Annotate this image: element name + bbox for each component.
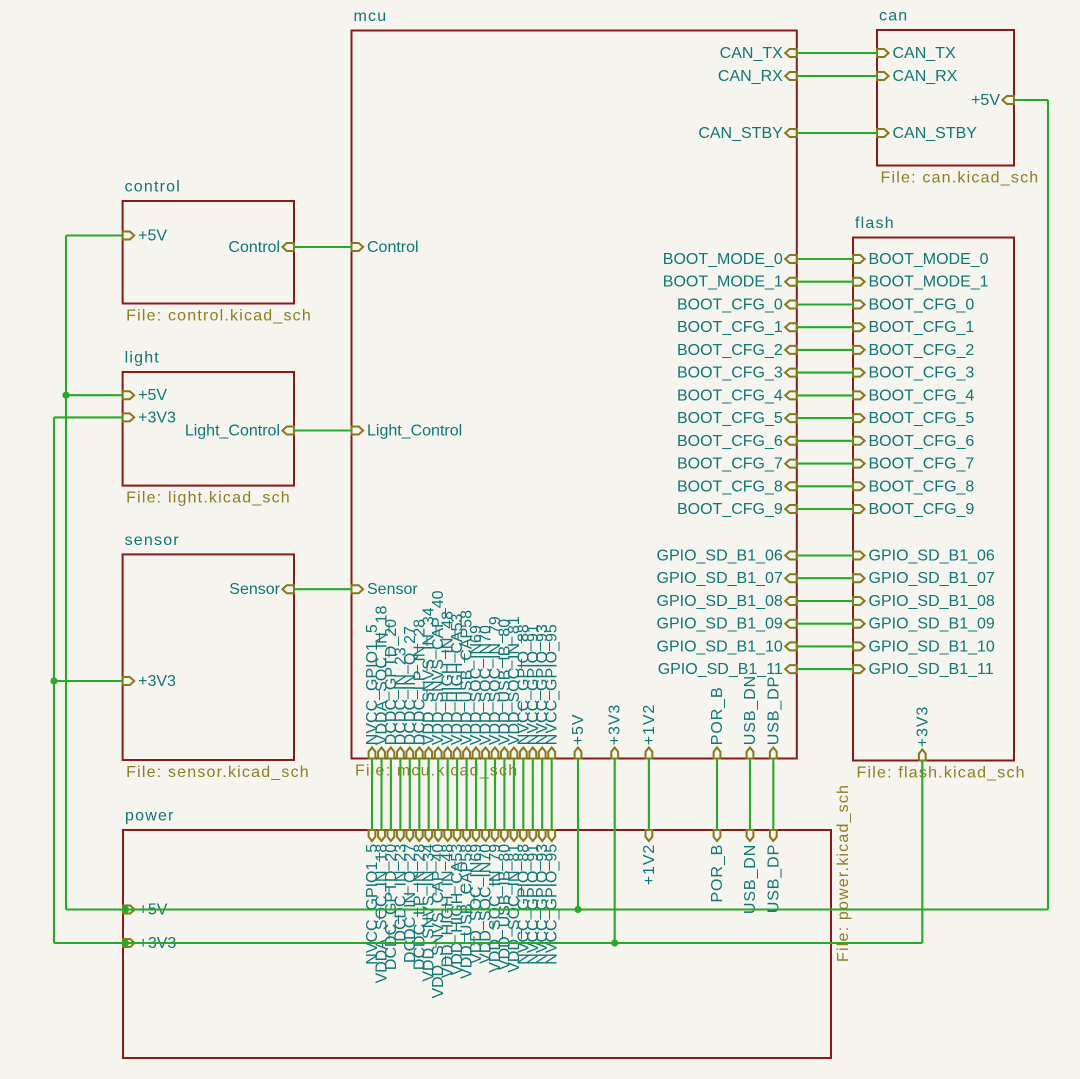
svg-text:File: mcu.kicad_sch: File: mcu.kicad_sch [355, 763, 518, 780]
sheet pin CAN_STBY (can left) [877, 129, 889, 137]
sheet pin +3V3 (flash bottom) [919, 750, 926, 761]
svg-text:Light_Control: Light_Control [367, 423, 462, 440]
svg-text:CAN_TX: CAN_TX [893, 45, 956, 62]
sheet pin BOOT_CFG_0 (flash left) [853, 301, 865, 309]
wire VDD_SNVS_IN_34 [428, 759, 430, 831]
sheet pin +5V (power left) [123, 906, 135, 914]
sheet pin GPIO_SD_B1_07 (mcu right) [785, 574, 797, 582]
svg-text:BOOT_CFG_4: BOOT_CFG_4 [869, 387, 975, 404]
sheet pin Control (mcu left) [352, 243, 364, 251]
sheet pin +3V3 (sensor left) [123, 677, 135, 685]
wire GPIO_SD_B1_06 [797, 554, 853, 556]
svg-text:BOOT_CFG_2: BOOT_CFG_2 [869, 342, 975, 359]
svg-text:BOOT_CFG_2: BOOT_CFG_2 [677, 342, 783, 359]
sheet pin VDD_HIGH_IN_48 (power top) [444, 830, 451, 841]
sheet pin +5V (mcu bottom) [575, 748, 582, 759]
svg-text:BOOT_CFG_5: BOOT_CFG_5 [869, 410, 975, 427]
svg-text:GPIO_SD_B1_09: GPIO_SD_B1_09 [869, 616, 995, 633]
svg-text:BOOT_MODE_0: BOOT_MODE_0 [663, 251, 783, 268]
sheet pin VDD_SOC_IN69 (mcu bottom) [473, 748, 480, 759]
sheet pin +3V3 (light left) [123, 413, 135, 421]
wire Control [294, 246, 352, 248]
sheet pin +3V3 (mcu bottom) [611, 748, 618, 759]
sheet pin VDD_SNVS_IN_34 (power top) [425, 830, 432, 841]
sheet pin DCDC_IN_Q_27 (mcu bottom) [406, 748, 413, 759]
svg-text:BOOT_CFG_9: BOOT_CFG_9 [677, 501, 783, 518]
sheet pin BOOT_CFG_3 (flash left) [853, 369, 865, 377]
svg-text:BOOT_CFG_1: BOOT_CFG_1 [677, 319, 783, 336]
wire BOOT_CFG_7 [797, 463, 853, 465]
svg-text:NVCC_GPIO_95: NVCC_GPIO_95 [544, 624, 561, 745]
sheet pin VDD_USB_IB_80 (power top) [501, 830, 508, 841]
sheet pin VDDA_SOC_IN_18 (mcu bottom) [378, 748, 385, 759]
sheet light: outline [123, 372, 294, 486]
svg-text:+5V: +5V [570, 714, 587, 746]
sheet pin BOOT_CFG_1 (mcu right) [785, 323, 797, 331]
wire NVCC_GPIO_88 [522, 759, 524, 831]
svg-text:POR_B: POR_B [709, 844, 726, 903]
sheet flash: outline [853, 238, 1014, 761]
svg-text:BOOT_CFG_6: BOOT_CFG_6 [677, 433, 783, 450]
sheet pin VDDA_SOC_IN_18 (power top) [378, 830, 385, 841]
sheet pin +5V (control left) [123, 232, 135, 240]
sheet control: outline [123, 201, 294, 304]
svg-text:CAN_RX: CAN_RX [718, 68, 783, 85]
wire GPIO_SD_B1_11 [797, 668, 853, 670]
svg-text:BOOT_MODE_1: BOOT_MODE_1 [869, 274, 989, 291]
sheet pin BOOT_MODE_1 (flash left) [853, 278, 865, 286]
wire DCDC_IN_23 [399, 759, 401, 831]
sheet pin NVCC_GPIO_93 (mcu bottom) [539, 748, 546, 759]
sheet pin BOOT_CFG_4 (flash left) [853, 391, 865, 399]
svg-text:BOOT_CFG_5: BOOT_CFG_5 [677, 410, 783, 427]
sheet pin GPIO_SD_B1_07 (flash left) [853, 574, 865, 582]
wire +1V2 [648, 759, 650, 831]
svg-text:BOOT_CFG_7: BOOT_CFG_7 [869, 456, 975, 473]
sheet pin GPIO_SD_B1_11 (flash left) [853, 665, 865, 673]
sheet pin BOOT_CFG_8 (flash left) [853, 482, 865, 490]
svg-text:GPIO_SD_B1_06: GPIO_SD_B1_06 [657, 548, 783, 565]
svg-text:USB_DP: USB_DP [765, 676, 782, 745]
sheet pin VDD_SOC_IN_79 (mcu bottom) [492, 748, 499, 759]
svg-text:+3V3: +3V3 [914, 706, 931, 747]
sheet pin BOOT_CFG_6 (flash left) [853, 437, 865, 445]
junction +3V3 power pin [122, 939, 129, 946]
sheet pin CAN_RX (mcu right) [785, 72, 797, 80]
sheet pin +1V2 (mcu bottom) [646, 748, 653, 759]
svg-text:CAN_STBY: CAN_STBY [698, 125, 783, 142]
svg-text:CAN_STBY: CAN_STBY [893, 125, 978, 142]
sheet pin VDD_SOC_IN70 (mcu bottom) [482, 748, 489, 759]
sheet pin BOOT_CFG_5 (flash left) [853, 414, 865, 422]
svg-text:+5V: +5V [138, 228, 167, 245]
svg-text:Light_Control: Light_Control [185, 423, 280, 440]
wire +5V light [66, 394, 123, 396]
sheet sensor: outline [123, 554, 294, 760]
svg-text:light: light [125, 350, 160, 367]
svg-text:BOOT_CFG_4: BOOT_CFG_4 [677, 387, 783, 404]
wire NVCC_GPIO1_5 [371, 759, 373, 831]
sheet pin VDD_SOC_IN_81 (mcu bottom) [511, 748, 518, 759]
wire NVCC_GPIO_95 [551, 759, 553, 831]
sheet pin GPIO_SD_B1_08 (mcu right) [785, 597, 797, 605]
sheet pin DCDC_GPTD_20 (power top) [388, 830, 395, 841]
sheet pin BOOT_CFG_8 (mcu right) [785, 482, 797, 490]
svg-text:File: power.kicad_sch: File: power.kicad_sch [835, 784, 852, 962]
svg-text:GPIO_SD_B1_10: GPIO_SD_B1_10 [869, 638, 995, 655]
sheet pin NVCC_GPIO1_5 (power top) [369, 830, 376, 841]
wire BOOT_CFG_2 [797, 349, 853, 351]
svg-text:+3V3: +3V3 [138, 409, 176, 426]
svg-text:flash: flash [855, 215, 895, 232]
svg-text:control: control [125, 179, 181, 196]
wire +5V mcu drop [577, 759, 579, 910]
sheet pin GPIO_SD_B1_10 (mcu right) [785, 642, 797, 650]
sheet pin BOOT_CFG_3 (mcu right) [785, 369, 797, 377]
sheet pin VDD_SNVS_CAP_40 (power top) [435, 830, 442, 841]
sheet pin +5V (can right) [1002, 96, 1014, 104]
sheet pin VDD_USB_CAP58 (power top) [463, 830, 470, 841]
sheet pin Sensor (sensor right) [282, 585, 294, 593]
svg-text:GPIO_SD_B1_11: GPIO_SD_B1_11 [869, 661, 994, 678]
wire VDDA_SOC_IN_18 [380, 759, 382, 831]
wire +3V3 bus [54, 942, 922, 944]
svg-text:Sensor: Sensor [367, 581, 418, 598]
wire BOOT_CFG_1 [797, 326, 853, 328]
sheet pin CAN_STBY (mcu right) [785, 129, 797, 137]
wire +5V can [1014, 99, 1048, 101]
svg-text:File: light.kicad_sch: File: light.kicad_sch [126, 490, 291, 507]
sheet mcu: outline [352, 31, 797, 759]
sheet pin DCDC_GPTD_20 (mcu bottom) [388, 748, 395, 759]
svg-text:GPIO_SD_B1_07: GPIO_SD_B1_07 [657, 570, 783, 587]
sheet pin GPIO_SD_B1_11 (mcu right) [785, 665, 797, 673]
wire DCDC_GPTD_20 [390, 759, 392, 831]
sheet pin NVCC_GPIO_93 (power top) [539, 830, 546, 841]
sheet pin Sensor (mcu left) [352, 585, 364, 593]
sheet pin BOOT_CFG_4 (mcu right) [785, 391, 797, 399]
svg-text:NVCC_GPIO_95: NVCC_GPIO_95 [544, 844, 561, 965]
wire CAN_RX [797, 75, 877, 77]
sheet pin BOOT_CFG_5 (mcu right) [785, 414, 797, 422]
wire GPIO_SD_B1_09 [797, 623, 853, 625]
wire +5V right vertical [1047, 100, 1049, 910]
sheet pin NVCC_GPIO_91 (mcu bottom) [529, 748, 536, 759]
sheet pin BOOT_MODE_1 (mcu right) [785, 278, 797, 286]
sheet pin VDD_USB_IB_80 (mcu bottom) [501, 748, 508, 759]
sheet pin BOOT_CFG_6 (mcu right) [785, 437, 797, 445]
sheet pin GPIO_SD_B1_10 (flash left) [853, 642, 865, 650]
sheet pin NVCC_GPIO_88 (mcu bottom) [520, 748, 527, 759]
svg-text:BOOT_CFG_3: BOOT_CFG_3 [677, 365, 783, 382]
wire +5V control [66, 234, 123, 236]
svg-text:Sensor: Sensor [229, 581, 280, 598]
sheet pin DCDC_IN_23 (power top) [397, 830, 404, 841]
sheet pin Light_Control (light right) [282, 427, 294, 435]
sheet pin GPIO_SD_B1_06 (flash left) [853, 552, 865, 560]
wire BOOT_MODE_1 [797, 281, 853, 283]
sheet can: outline [877, 30, 1014, 166]
svg-text:USB_DP: USB_DP [765, 844, 782, 913]
wire NVCC_GPIO_93 [541, 759, 543, 831]
svg-text:GPIO_SD_B1_07: GPIO_SD_B1_07 [869, 570, 995, 587]
sheet pin Light_Control (mcu left) [352, 427, 364, 435]
sheet pin BOOT_CFG_2 (mcu right) [785, 346, 797, 354]
junction +5V power pin [122, 906, 129, 913]
svg-text:GPIO_SD_B1_10: GPIO_SD_B1_10 [657, 638, 783, 655]
wire USB_DN [749, 759, 751, 831]
svg-text:BOOT_CFG_8: BOOT_CFG_8 [869, 478, 975, 495]
sheet pin NVCC_GPIO1_5 (mcu bottom) [369, 748, 376, 759]
wire +3V3 light [54, 416, 123, 418]
sheet pin CAN_TX (can left) [877, 49, 889, 57]
sheet pin VDD_USB_CAP58 (mcu bottom) [463, 748, 470, 759]
svg-text:File: can.kicad_sch: File: can.kicad_sch [881, 170, 1040, 187]
sheet pin BOOT_CFG_0 (mcu right) [785, 301, 797, 309]
svg-text:USB_DN: USB_DN [742, 844, 759, 914]
svg-text:power: power [125, 808, 175, 825]
wire BOOT_CFG_9 [797, 508, 853, 510]
wire BOOT_CFG_8 [797, 485, 853, 487]
sheet pin POR_B (mcu bottom) [714, 748, 721, 759]
sheet pin NVCC_GPIO_95 (mcu bottom) [548, 748, 555, 759]
svg-text:Control: Control [228, 239, 280, 256]
wire BOOT_CFG_4 [797, 394, 853, 396]
sheet pin BOOT_CFG_7 (mcu right) [785, 460, 797, 468]
wire VDD_SOC_IN_79 [494, 759, 496, 831]
sheet pin VDD_SOC_IN70 (power top) [482, 830, 489, 841]
svg-text:BOOT_CFG_0: BOOT_CFG_0 [869, 297, 975, 314]
svg-text:+1V2: +1V2 [641, 704, 658, 745]
sheet pin DCDC_IN_Q_27 (power top) [406, 830, 413, 841]
wire VDD_SOC_IN_81 [513, 759, 515, 831]
sheet pin GPIO_SD_B1_08 (flash left) [853, 597, 865, 605]
svg-text:CAN_RX: CAN_RX [893, 68, 958, 85]
sheet pin VDD_SNVS_IN_34 (mcu bottom) [425, 748, 432, 759]
svg-text:BOOT_CFG_0: BOOT_CFG_0 [677, 297, 783, 314]
sheet pin BOOT_CFG_9 (flash left) [853, 505, 865, 513]
wire USB_DP [772, 759, 774, 831]
sheet pin BOOT_CFG_2 (flash left) [853, 346, 865, 354]
svg-text:BOOT_MODE_0: BOOT_MODE_0 [869, 251, 989, 268]
svg-text:GPIO_SD_B1_08: GPIO_SD_B1_08 [657, 593, 783, 610]
svg-text:File: control.kicad_sch: File: control.kicad_sch [126, 308, 312, 325]
svg-text:POR_B: POR_B [709, 686, 726, 745]
wire +5V bus [66, 908, 1048, 910]
sheet pin VDD_SOC_IN69 (power top) [473, 830, 480, 841]
wire BOOT_CFG_5 [797, 417, 853, 419]
sheet pin USB_DN (power top) [747, 830, 754, 841]
wire VDD_SOC_IN69 [475, 759, 477, 831]
wire VDD_HIGH_CA53 [456, 759, 458, 831]
svg-text:sensor: sensor [125, 532, 180, 549]
sheet pin BOOT_CFG_9 (mcu right) [785, 505, 797, 513]
svg-text:mcu: mcu [354, 8, 388, 25]
sheet pin Control (control right) [282, 243, 294, 251]
sheet pin GPIO_SD_B1_09 (mcu right) [785, 620, 797, 628]
sheet pin USB_DN (mcu bottom) [747, 748, 754, 759]
junction +5V mcu tee [574, 906, 581, 913]
sheet pin BOOT_MODE_0 (flash left) [853, 255, 865, 263]
sheet pin DCDC_LP_IN_28 (mcu bottom) [416, 748, 423, 759]
sheet pin GPIO_SD_B1_09 (flash left) [853, 620, 865, 628]
sheet pin DCDC_LP_IN_28 (power top) [416, 830, 423, 841]
svg-text:GPIO_SD_B1_08: GPIO_SD_B1_08 [869, 593, 995, 610]
wire VDD_USB_CAP58 [466, 759, 468, 831]
sheet pin +3V3 (power left) [123, 939, 135, 947]
sheet pin NVCC_GPIO_95 (power top) [548, 830, 555, 841]
wire CAN_TX [797, 52, 877, 54]
wire BOOT_CFG_3 [797, 372, 853, 374]
svg-text:+5V: +5V [971, 92, 1000, 109]
wire VDD_SOC_IN70 [484, 759, 486, 831]
sheet pin VDD_SOC_IN_81 (power top) [511, 830, 518, 841]
svg-text:BOOT_CFG_9: BOOT_CFG_9 [869, 501, 975, 518]
wire +3V3 vertical left [53, 417, 55, 943]
sheet pin BOOT_CFG_7 (flash left) [853, 460, 865, 468]
junction +5V light tee [62, 392, 69, 399]
svg-text:GPIO_SD_B1_11: GPIO_SD_B1_11 [658, 661, 783, 678]
wire DCDC_IN_Q_27 [409, 759, 411, 831]
wire Light_Control [294, 429, 352, 431]
svg-text:File: sensor.kicad_sch: File: sensor.kicad_sch [126, 764, 310, 781]
wire BOOT_CFG_6 [797, 440, 853, 442]
svg-text:+1V2: +1V2 [641, 844, 658, 885]
svg-text:BOOT_CFG_8: BOOT_CFG_8 [677, 478, 783, 495]
wire VDD_HIGH_IN_48 [447, 759, 449, 831]
svg-text:can: can [879, 8, 908, 25]
svg-text:BOOT_CFG_7: BOOT_CFG_7 [677, 456, 783, 473]
sheet pin USB_DP (power top) [770, 830, 777, 841]
sheet pin CAN_RX (can left) [877, 72, 889, 80]
wire GPIO_SD_B1_07 [797, 577, 853, 579]
wire VDD_USB_IB_80 [503, 759, 505, 831]
sheet pin USB_DP (mcu bottom) [770, 748, 777, 759]
wire BOOT_MODE_0 [797, 258, 853, 260]
sheet pin POR_B (power top) [714, 830, 721, 841]
sheet pin VDD_HIGH_IN_48 (mcu bottom) [444, 748, 451, 759]
svg-text:+3V3: +3V3 [607, 704, 624, 745]
sheet pin DCDC_IN_23 (mcu bottom) [397, 748, 404, 759]
wire +3V3 flash drop [921, 761, 923, 944]
svg-text:Control: Control [367, 239, 419, 256]
sheet pin NVCC_GPIO_88 (power top) [520, 830, 527, 841]
svg-text:GPIO_SD_B1_09: GPIO_SD_B1_09 [657, 616, 783, 633]
wire CAN_STBY [797, 132, 877, 134]
junction +3V3 mcu tee [611, 939, 618, 946]
svg-text:File: flash.kicad_sch: File: flash.kicad_sch [857, 765, 1026, 782]
sheet pin VDD_HIGH_CA53 (power top) [454, 830, 461, 841]
wire GPIO_SD_B1_10 [797, 645, 853, 647]
sheet pin CAN_TX (mcu right) [785, 49, 797, 57]
wire BOOT_CFG_0 [797, 303, 853, 305]
sheet pin +1V2 (power top) [646, 830, 653, 841]
svg-text:CAN_TX: CAN_TX [720, 45, 783, 62]
sheet pin GPIO_SD_B1_06 (mcu right) [785, 552, 797, 560]
wire +3V3 sensor [54, 680, 123, 682]
wire GPIO_SD_B1_08 [797, 600, 853, 602]
svg-text:BOOT_CFG_1: BOOT_CFG_1 [869, 319, 975, 336]
sheet pin VDD_SNVS_CAP_40 (mcu bottom) [435, 748, 442, 759]
wire NVCC_GPIO_91 [532, 759, 534, 831]
sheet pin VDD_HIGH_CA53 (mcu bottom) [454, 748, 461, 759]
wire +3V3 mcu drop [614, 759, 616, 944]
junction +3V3 sensor tee [50, 677, 57, 684]
sheet pin BOOT_MODE_0 (mcu right) [785, 255, 797, 263]
svg-text:USB_DN: USB_DN [742, 675, 759, 745]
svg-text:BOOT_MODE_1: BOOT_MODE_1 [663, 274, 783, 291]
wire DCDC_LP_IN_28 [418, 759, 420, 831]
sheet pin NVCC_GPIO_91 (power top) [529, 830, 536, 841]
svg-text:+3V3: +3V3 [138, 673, 176, 690]
wire Sensor [294, 588, 352, 590]
sheet pin +5V (light left) [123, 391, 135, 399]
sheet pin VDD_SOC_IN_79 (power top) [492, 830, 499, 841]
sheet pin BOOT_CFG_1 (flash left) [853, 323, 865, 331]
svg-text:GPIO_SD_B1_06: GPIO_SD_B1_06 [869, 548, 995, 565]
svg-text:+5V: +5V [138, 387, 167, 404]
sheet power: outline [123, 830, 831, 1058]
svg-text:BOOT_CFG_6: BOOT_CFG_6 [869, 433, 975, 450]
wire VDD_SNVS_CAP_40 [437, 759, 439, 831]
wire +5V vertical left [65, 236, 67, 910]
wire POR_B [716, 759, 718, 831]
svg-text:BOOT_CFG_3: BOOT_CFG_3 [869, 365, 975, 382]
